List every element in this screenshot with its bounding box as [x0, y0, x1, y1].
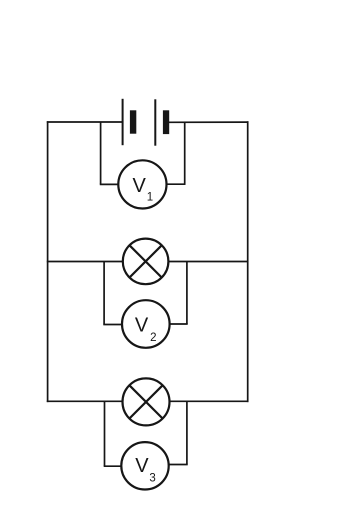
voltmeter V1 — [118, 160, 166, 208]
wire: middle right — [168, 261, 248, 263]
wire: V3 left lead — [104, 401, 122, 466]
wire: V2 left lead — [103, 261, 122, 325]
wire: middle left — [47, 261, 123, 263]
wire: right side of main loop — [247, 121, 249, 402]
voltmeter V3 — [121, 442, 168, 489]
wire: V1 left lead — [100, 122, 119, 185]
voltmeter V2 — [122, 300, 170, 348]
lamp L2 — [123, 378, 170, 425]
svg-text:V: V — [135, 455, 149, 477]
svg-text:V: V — [135, 315, 149, 337]
wire: bottom left — [47, 400, 123, 402]
wire: bottom right — [169, 400, 248, 402]
svg-text:V: V — [133, 175, 147, 197]
svg-text:1: 1 — [147, 192, 153, 204]
battery (two cells) — [123, 99, 170, 146]
wire: V2 right lead — [169, 261, 187, 324]
lamp L1 — [123, 239, 169, 285]
svg-text:2: 2 — [150, 332, 156, 344]
wire: left side of main loop — [47, 121, 49, 402]
svg-text:3: 3 — [149, 473, 155, 485]
wire: top, battery left lead — [47, 121, 123, 123]
wire: V3 right lead — [169, 401, 188, 465]
wire: top, battery right lead — [169, 121, 249, 123]
wire: V1 right lead — [166, 122, 185, 185]
